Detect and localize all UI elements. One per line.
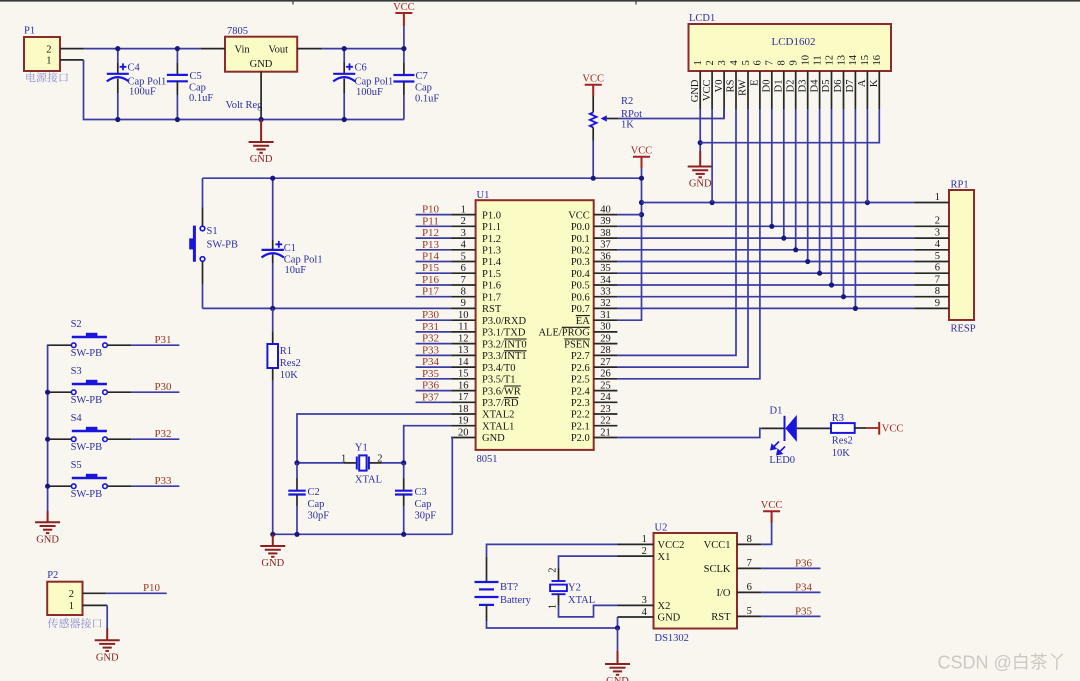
wire P35: [761, 615, 820, 617]
pin LED-R3: [797, 427, 831, 429]
wire LCD A column: [866, 109, 868, 203]
svg-text:P2.7: P2.7: [571, 351, 590, 362]
svg-text:P1.5: P1.5: [482, 269, 501, 280]
svg-text:RW: RW: [738, 79, 749, 95]
junction Y1 right: [401, 460, 406, 465]
svg-text:1: 1: [46, 56, 51, 67]
pin RP1-8: [914, 296, 949, 298]
overbar EA: [576, 315, 590, 317]
wire LCD D2 column: [795, 109, 797, 250]
svg-text:6: 6: [461, 263, 466, 274]
svg-text:P1.0: P1.0: [482, 210, 501, 221]
pin U1-36: [594, 261, 618, 263]
svg-text:20: 20: [458, 427, 469, 438]
wire P10: [416, 214, 452, 216]
svg-text:P34: P34: [795, 581, 813, 593]
svg-text:D2: D2: [785, 80, 796, 93]
respack RP1 body: [949, 190, 974, 320]
junction D4: [817, 271, 822, 276]
power VCC U2: [763, 510, 780, 512]
svg-text:Cap: Cap: [415, 499, 432, 510]
svg-text:P3.3/INT1: P3.3/INT1: [482, 351, 527, 362]
wire P33: [416, 354, 452, 356]
pin U1-18: [451, 413, 476, 415]
wire RW to P2.6: [617, 109, 748, 367]
svg-text:P31: P31: [154, 334, 171, 346]
wire P0.3 row: [617, 261, 914, 263]
wire bottom bus: [84, 60, 404, 120]
pin LCD1-6 E: [759, 71, 761, 109]
svg-text:XTAL: XTAL: [568, 595, 595, 606]
junction U2 GND: [615, 625, 620, 630]
wire P37: [416, 401, 452, 403]
svg-text:C6: C6: [355, 62, 367, 73]
ground GND key bus: [47, 511, 49, 522]
svg-text:7805: 7805: [227, 26, 248, 37]
wire P13: [416, 249, 452, 251]
crystal Y2: [558, 568, 560, 581]
junction C6 top: [342, 46, 347, 51]
svg-text:5: 5: [747, 606, 752, 617]
pin 7805 GND: [260, 72, 262, 120]
svg-text:SW-PB: SW-PB: [71, 395, 103, 406]
svg-text:Cap: Cap: [308, 499, 325, 510]
pin U1-35: [594, 272, 618, 274]
svg-text:P3.2/INT0: P3.2/INT0: [482, 339, 527, 350]
svg-text:5: 5: [935, 251, 940, 262]
svg-text:P10: P10: [143, 582, 161, 594]
svg-text:3: 3: [717, 60, 728, 65]
svg-text:E: E: [750, 80, 761, 86]
pin 7805 Vin: [201, 48, 225, 50]
junction key bus: [45, 437, 50, 442]
svg-text:Cap: Cap: [189, 82, 206, 93]
wire RST rail: [203, 307, 452, 309]
svg-text:1: 1: [69, 601, 74, 612]
svg-text:34: 34: [600, 275, 611, 286]
svg-text:2: 2: [461, 216, 466, 227]
svg-text:30pF: 30pF: [308, 510, 330, 521]
pin U1-25: [594, 390, 618, 392]
pin U1-20: [451, 437, 476, 439]
pin U1-11: [451, 331, 476, 333]
svg-text:10: 10: [801, 55, 812, 66]
switch S4: [49, 438, 72, 440]
pin U1-22: [594, 425, 618, 427]
pin U1-30: [594, 331, 618, 333]
svg-text:2: 2: [46, 44, 51, 55]
pin U1-34: [594, 284, 618, 286]
pin U2-3 X2: [618, 604, 654, 606]
svg-text:S3: S3: [71, 366, 82, 377]
svg-text:XTAL: XTAL: [355, 475, 382, 486]
pin LCD1-7 D0: [771, 71, 773, 109]
svg-text:D4: D4: [809, 79, 820, 93]
svg-text:Vin: Vin: [235, 44, 251, 55]
svg-text:2: 2: [935, 216, 940, 227]
svg-text:R3: R3: [832, 413, 844, 424]
svg-text:5: 5: [741, 60, 752, 65]
pin P2-2: [83, 592, 106, 594]
svg-text:24: 24: [600, 392, 611, 403]
svg-text:29: 29: [600, 333, 611, 344]
svg-text:8: 8: [747, 534, 752, 545]
svg-text:DS1302: DS1302: [655, 633, 689, 644]
svg-text:EA: EA: [576, 316, 590, 327]
svg-text:4: 4: [642, 607, 648, 618]
svg-text:GND: GND: [606, 676, 629, 681]
pin U2-7 SCLK: [737, 567, 761, 569]
svg-text:1: 1: [548, 604, 559, 609]
svg-text:P0.3: P0.3: [571, 257, 590, 268]
svg-text:2: 2: [377, 453, 382, 464]
svg-text:P11: P11: [422, 215, 439, 227]
svg-text:P35: P35: [422, 368, 440, 380]
svg-text:P34: P34: [422, 356, 440, 368]
wire U2 GND: [617, 617, 619, 628]
pin U1-32: [594, 307, 618, 309]
wire oscillator ground bus: [273, 533, 453, 535]
wire LCD VCC column: [711, 109, 713, 203]
junction key bus: [45, 484, 50, 489]
resistor R3: [831, 423, 855, 433]
svg-text:2: 2: [642, 546, 647, 557]
junction Y1 left: [294, 460, 299, 465]
junction VCC pin40: [639, 212, 644, 217]
svg-text:33: 33: [600, 287, 611, 298]
svg-text:VCC: VCC: [582, 74, 604, 85]
svg-text:RP1: RP1: [951, 180, 969, 191]
ground GND under R1: [272, 534, 274, 546]
svg-text:XTAL2: XTAL2: [482, 410, 514, 421]
junction LCD VCC column: [710, 200, 715, 205]
switch S3: [49, 391, 72, 393]
pin LCD1-9 D2: [795, 71, 797, 109]
junction VCC rail: [639, 176, 644, 181]
ground GND under P2: [106, 628, 108, 640]
svg-text:9: 9: [789, 60, 800, 65]
svg-text:X1: X1: [658, 552, 671, 563]
svg-text:6: 6: [753, 60, 764, 65]
pin LCD1-12 D5: [831, 71, 833, 109]
junction key bus: [45, 390, 50, 395]
wire P35: [416, 378, 452, 380]
svg-text:25: 25: [600, 380, 611, 391]
pin LCD1-1 GND: [699, 71, 701, 109]
svg-text:D0: D0: [762, 80, 773, 93]
pin U1-10: [451, 319, 476, 321]
pin U1-39: [594, 225, 618, 227]
wire LCD D5 column: [831, 109, 833, 285]
pin U1-24: [594, 401, 618, 403]
svg-text:2: 2: [705, 60, 716, 65]
junction C1 top: [270, 176, 275, 181]
wire P31: [416, 331, 452, 333]
svg-text:28: 28: [600, 345, 611, 356]
svg-text:P15: P15: [422, 262, 440, 274]
svg-text:P16: P16: [422, 274, 440, 286]
wire V0 wiper: [607, 118, 618, 120]
svg-text:CSDN @: CSDN @: [938, 652, 1012, 672]
svg-text:7: 7: [461, 275, 466, 286]
svg-text:3: 3: [642, 595, 647, 606]
svg-text:C3: C3: [415, 487, 427, 498]
junction LCD GND/K: [698, 140, 703, 145]
svg-text:11: 11: [458, 322, 468, 333]
svg-text:S4: S4: [71, 413, 83, 424]
svg-text:10K: 10K: [280, 370, 299, 381]
wire P17: [416, 296, 452, 298]
svg-text:6: 6: [935, 263, 940, 274]
wire battery to ground bus: [487, 621, 618, 628]
svg-text:15: 15: [860, 55, 871, 66]
svg-text:8: 8: [777, 60, 788, 65]
svg-text:P0.7: P0.7: [571, 304, 590, 315]
svg-text:D6: D6: [833, 80, 844, 93]
wire RP1 common VCC line: [642, 202, 915, 204]
pin RP1-4: [914, 249, 949, 251]
pin U1-13: [451, 354, 476, 356]
pin U1-8: [451, 296, 476, 298]
svg-text:VCC: VCC: [631, 146, 653, 157]
led D1 LED0: [762, 427, 785, 429]
wire P11: [416, 225, 452, 227]
svg-text:LCD1602: LCD1602: [772, 36, 816, 48]
pin U2-4 GND: [618, 616, 654, 618]
wire P0.0 row: [617, 225, 914, 227]
wire VCC vertical to EA: [617, 168, 641, 320]
svg-text:1K: 1K: [621, 120, 634, 131]
capacitor C1: [272, 178, 274, 240]
pin U1-15: [451, 378, 476, 380]
svg-text:VCC: VCC: [761, 500, 783, 511]
svg-text:13: 13: [458, 345, 469, 356]
svg-text:GND: GND: [690, 79, 701, 102]
svg-text:U1: U1: [477, 190, 490, 201]
connector P1: [24, 37, 60, 71]
svg-text:35: 35: [600, 263, 611, 274]
svg-text:SW-PB: SW-PB: [71, 442, 103, 453]
svg-text:10uF: 10uF: [285, 265, 307, 276]
svg-text:C2: C2: [308, 487, 320, 498]
wire key output: [132, 391, 180, 393]
pin U1-6: [451, 272, 476, 274]
wire LCD D6 column: [843, 109, 845, 297]
wire P14: [416, 261, 452, 263]
svg-text:P30: P30: [154, 381, 172, 393]
svg-text:22: 22: [600, 416, 611, 427]
svg-text:P0.6: P0.6: [571, 292, 590, 303]
svg-text:P0.1: P0.1: [571, 234, 590, 245]
pin LCD1-15 A: [866, 71, 868, 109]
wire P36: [761, 567, 820, 569]
ground GND bottom: [617, 651, 619, 664]
svg-text:Res2: Res2: [832, 436, 853, 447]
svg-text:1: 1: [693, 60, 704, 65]
wire E to P2.5: [617, 109, 760, 379]
resistor R1: [272, 308, 274, 332]
svg-text:10: 10: [458, 310, 469, 321]
svg-text:36: 36: [600, 251, 611, 262]
ground GND under 7805: [260, 120, 262, 143]
svg-text:15: 15: [458, 369, 469, 380]
pin U1-27: [594, 366, 618, 368]
power VCC bar right: [866, 427, 878, 429]
pin LCD1-4 RS: [735, 71, 737, 109]
junction C5 top: [175, 46, 180, 51]
svg-text:P17: P17: [422, 286, 440, 298]
svg-text:VCC: VCC: [568, 210, 590, 221]
wire P36: [416, 390, 452, 392]
pin LCD1-2 VCC: [711, 71, 713, 109]
pin LCD1-10 D3: [807, 71, 809, 109]
pin U1-37: [594, 249, 618, 251]
junction D5: [829, 282, 834, 287]
svg-text:Y1: Y1: [355, 442, 368, 453]
wire LCD D4 column: [819, 109, 821, 273]
wire RS to P2.7: [617, 109, 736, 355]
wire P34: [416, 366, 452, 368]
wire key output: [132, 344, 180, 346]
junction D7: [853, 306, 858, 311]
wire key output: [132, 485, 180, 487]
pin U2-2 X1: [618, 555, 654, 557]
pin U1-26: [594, 378, 618, 380]
svg-text:V0: V0: [714, 80, 725, 93]
svg-text:5: 5: [461, 251, 466, 262]
svg-text:A: A: [857, 79, 868, 87]
svg-text:P3.7/RD: P3.7/RD: [482, 398, 519, 409]
svg-text:P36: P36: [422, 380, 440, 392]
pin U1-21: [594, 437, 618, 439]
svg-text:16: 16: [872, 55, 883, 66]
pin U1-28: [594, 354, 618, 356]
pin U1-7: [451, 284, 476, 286]
svg-text:9: 9: [935, 298, 940, 309]
svg-text:D1: D1: [774, 80, 785, 93]
capacitor C7: [403, 49, 405, 63]
capacitor C4: [117, 49, 119, 63]
switch S5: [49, 485, 72, 487]
svg-text:P3.6/WR: P3.6/WR: [482, 386, 521, 397]
svg-text:9: 9: [461, 298, 466, 309]
pin LCD1-13 D6: [843, 71, 845, 109]
svg-text:R1: R1: [280, 346, 292, 357]
pin P1-2: [60, 48, 84, 50]
svg-text:4: 4: [729, 60, 740, 66]
svg-text:P12: P12: [422, 227, 439, 239]
svg-text:BT?: BT?: [500, 582, 518, 593]
svg-text:8: 8: [461, 287, 466, 298]
svg-text:D5: D5: [821, 80, 832, 93]
ground GND under LCD: [699, 151, 701, 167]
wire P0.5 row: [617, 284, 914, 286]
overbar INT1: [504, 350, 527, 352]
svg-text:SW-PB: SW-PB: [207, 240, 239, 251]
lcd LCD1 body: [689, 24, 892, 71]
pin LCD1-3 V0: [723, 71, 725, 109]
wire XTAL1: [404, 426, 451, 463]
switch S2: [49, 344, 72, 346]
svg-text:3: 3: [935, 228, 940, 239]
pin U1-2: [451, 225, 476, 227]
svg-text:7: 7: [765, 60, 776, 65]
pin U2-8 VCC1: [737, 543, 761, 545]
svg-text:GND: GND: [482, 433, 505, 444]
svg-text:P0.4: P0.4: [571, 269, 591, 280]
svg-text:P2.4: P2.4: [571, 386, 591, 397]
svg-text:4: 4: [461, 240, 467, 251]
svg-text:8: 8: [935, 286, 940, 297]
svg-text:Cap Pol1: Cap Pol1: [355, 77, 394, 88]
pin U1-17: [451, 401, 476, 403]
svg-text:1: 1: [642, 534, 647, 545]
svg-text:GND: GND: [250, 154, 273, 165]
svg-text:K: K: [869, 79, 880, 87]
svg-text:P3.1/TXD: P3.1/TXD: [482, 328, 526, 339]
svg-text:7: 7: [935, 274, 940, 285]
wire LCD GND column: [699, 109, 701, 151]
svg-text:D7: D7: [845, 80, 856, 93]
svg-text:P0.2: P0.2: [571, 246, 590, 257]
svg-text:R2: R2: [621, 96, 633, 107]
svg-text:P2.0: P2.0: [571, 433, 590, 444]
rtc U2 DS1302 body: [654, 533, 738, 629]
svg-text:21: 21: [600, 427, 611, 438]
svg-text:12: 12: [824, 55, 835, 66]
pin U2-1 VCC2: [618, 543, 654, 545]
pin U1-12: [451, 343, 476, 345]
svg-text:GND: GND: [250, 59, 273, 70]
pin RP1-7: [914, 284, 949, 286]
wire X1 to crystal: [559, 556, 618, 568]
wire U1 GND to bus: [451, 438, 452, 535]
svg-text:VCC1: VCC1: [704, 540, 731, 551]
junction VCC RP1 line: [639, 200, 644, 205]
svg-text:8051: 8051: [477, 454, 498, 465]
pin RP1-6: [914, 272, 949, 274]
connector P2: [47, 582, 82, 615]
junction D2: [793, 247, 798, 252]
svg-text:P3.5/T1: P3.5/T1: [482, 375, 516, 386]
wire P34: [761, 591, 820, 593]
pin RP1-9: [914, 307, 949, 309]
svg-text:S5: S5: [71, 460, 82, 471]
junction pot bottom: [591, 176, 596, 181]
wire P0.1 row: [617, 237, 914, 239]
svg-text:P3.4/T0: P3.4/T0: [482, 363, 516, 374]
wire LCD V0 column: [723, 109, 725, 119]
pin U1-5: [451, 261, 476, 263]
svg-text:Cap: Cap: [415, 83, 432, 94]
svg-text:RST: RST: [482, 304, 502, 315]
power VCC top: [395, 12, 412, 14]
junction D3: [805, 259, 810, 264]
svg-text:U2: U2: [655, 523, 668, 534]
svg-text:16: 16: [458, 380, 469, 391]
pin P1-1: [60, 59, 84, 61]
svg-text:38: 38: [600, 228, 611, 239]
svg-text:14: 14: [458, 357, 469, 368]
junction D6: [841, 294, 846, 299]
svg-text:GND: GND: [658, 613, 681, 624]
svg-text:100uF: 100uF: [356, 87, 383, 98]
wire P0.4 row: [617, 272, 914, 274]
svg-text:12: 12: [458, 333, 469, 344]
capacitor C5: [176, 49, 178, 63]
svg-text:S2: S2: [71, 319, 82, 330]
pin U1-16: [451, 390, 476, 392]
